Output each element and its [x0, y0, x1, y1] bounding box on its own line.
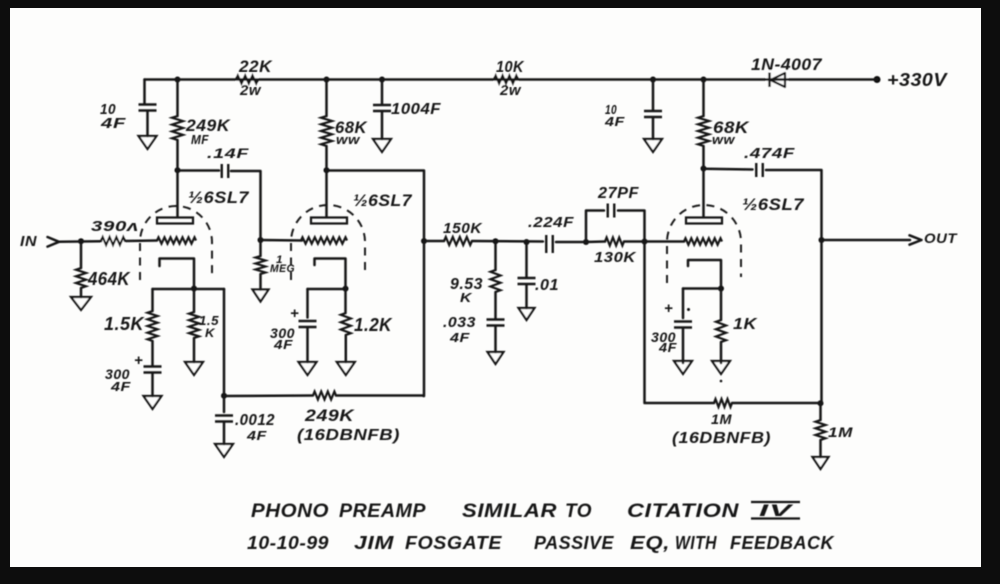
svg-text:K: K [460, 290, 473, 305]
svg-text:.474F: .474F [744, 145, 795, 162]
svg-text:JIM: JIM [354, 533, 395, 553]
svg-text:PREAMP: PREAMP [339, 501, 426, 522]
svg-text:+330V: +330V [887, 70, 949, 90]
svg-text:.14F: .14F [207, 145, 249, 161]
svg-text:EQ,: EQ, [630, 533, 670, 553]
svg-text:249K: 249K [304, 406, 356, 425]
svg-text:.224F: .224F [528, 214, 574, 231]
svg-text:FOSGATE: FOSGATE [405, 533, 503, 553]
svg-text:4F: 4F [449, 330, 471, 345]
svg-text:1.5K: 1.5K [104, 314, 145, 334]
svg-text:FEEDBACK: FEEDBACK [730, 533, 835, 553]
svg-text:130K: 130K [594, 249, 637, 266]
svg-text:IV: IV [759, 502, 795, 520]
svg-text:MEG: MEG [270, 263, 295, 275]
svg-text:.0012: .0012 [235, 412, 275, 429]
svg-text:.01: .01 [535, 277, 559, 294]
svg-text:2w: 2w [239, 82, 262, 99]
svg-text:WITH: WITH [675, 533, 717, 553]
svg-text:1.2K: 1.2K [354, 315, 393, 335]
svg-text:1N-4007: 1N-4007 [751, 55, 823, 74]
svg-text:2w: 2w [499, 82, 522, 99]
svg-text:.033: .033 [443, 314, 476, 331]
svg-text:1M: 1M [711, 411, 732, 427]
svg-text:1004F: 1004F [391, 101, 442, 118]
svg-text:IN: IN [20, 233, 38, 250]
svg-text:SIMILAR: SIMILAR [462, 501, 557, 522]
svg-text:4F: 4F [273, 337, 294, 352]
svg-text:K: K [205, 326, 216, 340]
svg-text:1M: 1M [828, 424, 853, 440]
svg-text:390ʌ: 390ʌ [91, 218, 139, 235]
svg-text:4F: 4F [100, 115, 127, 132]
svg-text:½6SL7: ½6SL7 [353, 191, 413, 210]
svg-text:(16DBNFB): (16DBNFB) [672, 430, 771, 447]
svg-text:10K: 10K [496, 59, 525, 76]
svg-text:ww: ww [336, 132, 360, 147]
svg-text:TO: TO [565, 501, 592, 522]
svg-text:PASSIVE: PASSIVE [534, 533, 614, 553]
svg-text:+: + [290, 305, 299, 322]
svg-text:OUT: OUT [924, 230, 958, 246]
svg-text:+: + [134, 352, 143, 369]
svg-text:10-10-99: 10-10-99 [247, 533, 329, 553]
svg-text:27PF: 27PF [597, 185, 640, 202]
svg-text:4F: 4F [604, 114, 626, 129]
svg-text:1K: 1K [733, 316, 758, 333]
svg-text:4F: 4F [246, 428, 268, 443]
svg-text:ww: ww [712, 132, 735, 147]
svg-text:PHONO: PHONO [251, 501, 329, 522]
svg-text:½6SL7: ½6SL7 [188, 188, 250, 207]
svg-text:4F: 4F [110, 379, 132, 394]
svg-text:4F: 4F [658, 340, 678, 355]
svg-text:(16DBNFB): (16DBNFB) [297, 427, 400, 444]
svg-text:½6SL7: ½6SL7 [742, 195, 805, 214]
svg-text:464K: 464K [87, 269, 131, 289]
svg-text:150K: 150K [443, 220, 483, 237]
svg-text:CITATION: CITATION [627, 501, 740, 522]
svg-text:22K: 22K [238, 57, 273, 76]
svg-text:+: + [664, 300, 673, 317]
